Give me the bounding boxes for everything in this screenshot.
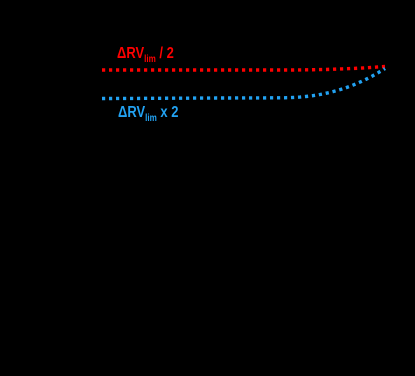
red dotted curve — [102, 67, 385, 71]
blue dotted curve — [102, 69, 385, 99]
red label — [117, 45, 174, 65]
blue label — [118, 104, 178, 124]
